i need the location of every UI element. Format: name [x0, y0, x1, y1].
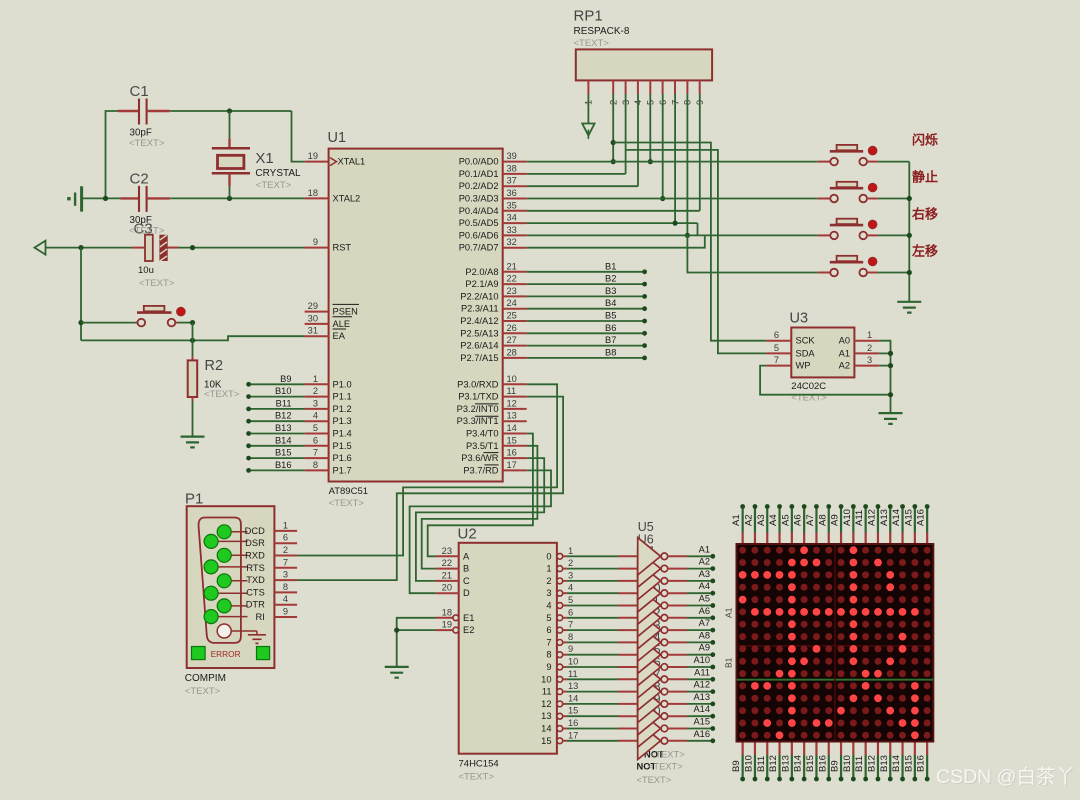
COMPIM DB9 pin circles [224, 531, 247, 533]
push button 静止 [818, 198, 831, 200]
capacitor C2 [121, 197, 140, 199]
svg-text:9: 9 [313, 237, 318, 247]
svg-text:13: 13 [541, 711, 551, 721]
push button 闪烁 [818, 161, 831, 163]
svg-text:P1.1: P1.1 [333, 392, 352, 402]
svg-text:2: 2 [546, 576, 551, 586]
wire left vertical C1 to XTAL2 row [106, 111, 120, 198]
svg-text:RESPACK-8: RESPACK-8 [574, 26, 630, 37]
ground below U3 [879, 413, 903, 424]
wire U2 output 6 to NOT gate [567, 629, 618, 631]
svg-text:A: A [463, 551, 470, 561]
svg-text:1: 1 [546, 564, 551, 574]
COMPIM pin stubs and names [274, 530, 297, 532]
svg-text:16: 16 [507, 448, 517, 458]
svg-text:37: 37 [507, 176, 517, 186]
svg-text:7: 7 [568, 620, 573, 630]
svg-text:P0.6/AD6: P0.6/AD6 [459, 230, 499, 240]
svg-text:A8: A8 [817, 514, 828, 526]
svg-text:<TEXT>: <TEXT> [637, 775, 672, 785]
wires B1-B8 from P2.0-P2.7 [527, 271, 645, 273]
svg-text:B10: B10 [842, 755, 853, 772]
ground below buttons [897, 302, 921, 313]
svg-text:8: 8 [568, 632, 573, 642]
svg-text:2: 2 [867, 343, 872, 353]
wire P0.2 row [527, 185, 638, 187]
svg-text:B13: B13 [780, 755, 791, 772]
svg-text:3: 3 [546, 588, 551, 598]
svg-text:20: 20 [442, 583, 452, 593]
wire U2 output 4 to NOT gate [567, 605, 618, 607]
wire green row line behind matrix [737, 679, 934, 681]
svg-text:A5: A5 [699, 594, 710, 604]
svg-text:B16: B16 [916, 755, 927, 772]
svg-text:B6: B6 [605, 323, 616, 333]
microcontroller U1 AT89C51 body [329, 149, 503, 482]
svg-text:P2.7/A15: P2.7/A15 [460, 353, 498, 363]
wire net A8 [687, 641, 713, 643]
svg-text:7: 7 [774, 355, 779, 365]
svg-text:B13: B13 [879, 755, 890, 772]
svg-text:18: 18 [442, 607, 452, 617]
svg-text:34: 34 [507, 213, 517, 223]
svg-text:17: 17 [568, 730, 578, 740]
wire net A2 [687, 568, 713, 570]
svg-text:17: 17 [507, 460, 517, 470]
wire WP to ground loop [760, 366, 890, 395]
svg-text:RST: RST [333, 243, 352, 253]
wire reset button branch [80, 248, 82, 341]
svg-text:P2.1/A9: P2.1/A9 [465, 279, 498, 289]
svg-text:23: 23 [442, 546, 452, 556]
svg-text:CTS: CTS [246, 587, 265, 597]
svg-text:B9: B9 [731, 760, 742, 772]
wire E1 E2 to ground [397, 618, 436, 667]
svg-text:B8: B8 [605, 347, 616, 357]
svg-text:1: 1 [568, 546, 573, 556]
svg-text:A8: A8 [699, 630, 710, 640]
wire net A6 [687, 617, 713, 619]
svg-text:19: 19 [308, 151, 318, 161]
svg-text:B2: B2 [605, 274, 616, 284]
svg-text:A6: A6 [793, 514, 804, 526]
svg-text:B14: B14 [891, 755, 902, 772]
svg-text:10u: 10u [138, 265, 154, 276]
svg-text:A1: A1 [731, 514, 742, 526]
svg-text:P1.5: P1.5 [333, 441, 352, 451]
wire EA net [81, 336, 305, 340]
svg-text:RI: RI [255, 612, 264, 622]
svg-text:9: 9 [283, 607, 288, 617]
svg-text:R2: R2 [205, 358, 224, 374]
svg-text:27: 27 [507, 335, 517, 345]
svg-text:RXD: RXD [245, 551, 265, 561]
capacitor C1 [118, 110, 139, 112]
wire U2 output 13 to NOT gate [567, 715, 618, 717]
svg-text:XTAL2: XTAL2 [333, 193, 361, 203]
svg-text:A3: A3 [756, 514, 767, 526]
wire P3.6 to U2 C [416, 458, 544, 581]
svg-text:A7: A7 [699, 618, 710, 628]
svg-text:U2: U2 [458, 526, 477, 543]
svg-text:RTS: RTS [246, 563, 264, 573]
svg-text:A14: A14 [891, 509, 902, 526]
svg-text:10: 10 [507, 374, 517, 384]
wire P0.0 row to button 1 [527, 161, 818, 163]
U2 output pins 0-15 [557, 553, 563, 559]
wire U2 output 12 to NOT gate [567, 703, 618, 705]
svg-text:A10: A10 [842, 509, 853, 526]
U2 enable pins E1 E2 with bubbles [436, 617, 453, 619]
svg-text:右移: 右移 [911, 206, 938, 221]
svg-text:2: 2 [568, 558, 573, 568]
svg-text:A3: A3 [699, 569, 710, 579]
svg-text:B10: B10 [275, 386, 292, 396]
svg-text:A1: A1 [699, 544, 710, 554]
svg-text:11: 11 [507, 386, 517, 396]
svg-text:<TEXT>: <TEXT> [139, 278, 175, 289]
svg-text:6: 6 [546, 625, 551, 635]
svg-text:22: 22 [507, 274, 517, 284]
svg-text:9: 9 [568, 644, 573, 654]
RP1 pull-up verticals to P0 rows [612, 94, 614, 162]
capacitor C3 electrolytic 10u [132, 247, 145, 249]
svg-text:A13: A13 [693, 692, 710, 702]
serial port P1 COMPIM body [187, 506, 275, 668]
svg-text:B15: B15 [275, 448, 292, 458]
svg-text:5: 5 [546, 613, 551, 623]
svg-text:CSDN @白茶丫: CSDN @白茶丫 [936, 766, 1075, 788]
COMPIM DB9 connector outline [199, 518, 241, 643]
svg-text:C2: C2 [130, 171, 149, 188]
svg-text:22: 22 [442, 558, 452, 568]
wire P0.5 step down [697, 223, 699, 235]
svg-text:A9: A9 [699, 643, 710, 653]
svg-text:B5: B5 [605, 311, 616, 321]
resistor pack RP1 RESPACK-8 [576, 49, 712, 80]
wire net A9 [687, 654, 713, 656]
svg-text:13: 13 [507, 411, 517, 421]
svg-text:B15: B15 [903, 755, 914, 772]
wire U2 output 14 to NOT gate [567, 728, 618, 730]
svg-text:P3.6/WR: P3.6/WR [461, 453, 498, 463]
svg-text:P0.5/AD5: P0.5/AD5 [459, 218, 499, 228]
wire P0.3 row to button 2 [527, 198, 818, 200]
svg-text:15: 15 [507, 435, 517, 445]
svg-text:A10: A10 [693, 655, 710, 665]
led matrix dots [739, 547, 746, 554]
svg-text:A4: A4 [699, 581, 710, 591]
wires B9-B16 to P1.0-P1.7 [249, 383, 305, 385]
svg-text:TXD: TXD [246, 575, 265, 585]
svg-text:P1.0: P1.0 [333, 379, 352, 389]
svg-text:B9: B9 [830, 760, 841, 772]
svg-text:3: 3 [867, 355, 872, 365]
wire net A14 [687, 715, 713, 717]
svg-text:14: 14 [507, 423, 517, 433]
svg-text:P0.7/AD7: P0.7/AD7 [459, 243, 499, 253]
led matrix quadrant divider lines [737, 544, 934, 742]
svg-text:8: 8 [313, 460, 318, 470]
svg-text:E1: E1 [463, 613, 474, 623]
svg-text:B11: B11 [854, 756, 865, 772]
wire P3.5 to U2 B [422, 446, 538, 569]
svg-text:7: 7 [546, 637, 551, 647]
svg-text:<TEXT>: <TEXT> [574, 38, 610, 49]
resistor R2 10K [192, 323, 194, 357]
svg-text:8: 8 [283, 582, 288, 592]
wire U2 output 7 to NOT gate [567, 641, 618, 643]
svg-text:A7: A7 [805, 514, 816, 526]
svg-text:XTAL1: XTAL1 [338, 157, 366, 167]
svg-text:11: 11 [542, 687, 552, 697]
svg-text:P3.2/INT0: P3.2/INT0 [457, 404, 499, 414]
wire net A12 [687, 691, 713, 693]
svg-text:A2: A2 [699, 557, 710, 567]
svg-text:P2.3/A11: P2.3/A11 [461, 304, 499, 314]
wire P0.7 row with step up [527, 235, 705, 247]
svg-text:A15: A15 [903, 509, 914, 526]
wire U2 output 10 to NOT gate [567, 678, 618, 680]
svg-text:4: 4 [313, 411, 318, 421]
svg-text:ERROR: ERROR [211, 649, 241, 659]
svg-text:ALE: ALE [333, 319, 351, 329]
svg-text:7: 7 [313, 448, 318, 458]
svg-text:P3.0/RXD: P3.0/RXD [457, 379, 499, 389]
svg-text:13: 13 [568, 681, 578, 691]
svg-text:PSEN: PSEN [333, 307, 358, 317]
svg-text:1: 1 [283, 520, 288, 530]
svg-text:14: 14 [568, 693, 578, 703]
svg-text:A2: A2 [743, 514, 754, 526]
svg-text:B16: B16 [275, 460, 292, 470]
svg-text:B12: B12 [275, 411, 292, 421]
svg-text:25: 25 [507, 311, 517, 321]
svg-text:A16: A16 [693, 729, 710, 739]
svg-text:<TEXT>: <TEXT> [256, 180, 292, 191]
svg-text:P3.3/INT1: P3.3/INT1 [457, 416, 499, 426]
svg-text:左移: 左移 [912, 244, 938, 259]
svg-text:P0.1/AD1: P0.1/AD1 [459, 169, 499, 179]
wire U2 output 5 to NOT gate [567, 617, 618, 619]
svg-text:39: 39 [507, 151, 517, 161]
svg-text:A1: A1 [839, 348, 850, 358]
ground below E1 E2 [385, 667, 409, 678]
svg-text:X1: X1 [255, 150, 273, 167]
wire P0.6 row to button 3 [527, 234, 818, 236]
svg-text:38: 38 [507, 163, 517, 173]
svg-text:30: 30 [308, 313, 318, 323]
svg-text:DTR: DTR [246, 600, 265, 610]
ground below R2 [181, 437, 205, 448]
wire A0 A1 A2 to ground [879, 341, 890, 413]
wire net A7 [687, 629, 713, 631]
svg-text:A11: A11 [854, 510, 865, 526]
svg-text:5: 5 [774, 343, 779, 353]
svg-text:10: 10 [568, 657, 578, 667]
wire U2 output 15 to NOT gate [567, 740, 618, 742]
svg-text:P3.4/T0: P3.4/T0 [466, 429, 499, 439]
svg-text:P1.4: P1.4 [333, 429, 352, 439]
svg-text:A1: A1 [724, 607, 734, 618]
svg-text:12: 12 [541, 699, 551, 709]
svg-text:4: 4 [546, 601, 551, 611]
svg-text:33: 33 [507, 225, 517, 235]
svg-text:A16: A16 [916, 509, 927, 526]
svg-text:E2: E2 [463, 625, 474, 635]
svg-text:A4: A4 [768, 514, 779, 526]
svg-text:WP: WP [796, 361, 811, 371]
svg-text:A5: A5 [780, 514, 791, 526]
svg-text:P1: P1 [185, 491, 203, 508]
svg-text:B16: B16 [817, 755, 828, 772]
wire net A16 [687, 740, 713, 742]
svg-text:D: D [463, 588, 470, 598]
push button 右移 [818, 234, 831, 236]
svg-text:闪烁: 闪烁 [912, 133, 938, 148]
svg-text:12: 12 [507, 398, 517, 408]
svg-text:4: 4 [568, 583, 573, 593]
svg-text:35: 35 [507, 200, 517, 210]
svg-text:EA: EA [333, 331, 346, 341]
push button 左移 [818, 272, 831, 274]
decoder U2 74HC154 body [459, 543, 557, 754]
svg-text:B14: B14 [275, 435, 292, 445]
svg-text:静止: 静止 [912, 170, 938, 185]
svg-text:24: 24 [507, 298, 517, 308]
svg-text:A2: A2 [839, 361, 850, 371]
svg-text:A13: A13 [879, 509, 890, 526]
svg-text:3: 3 [568, 570, 573, 580]
svg-text:<TEXT>: <TEXT> [204, 389, 240, 400]
svg-text:SCK: SCK [796, 336, 816, 346]
wire net A4 [687, 592, 713, 594]
svg-text:<TEXT>: <TEXT> [329, 498, 365, 509]
svg-text:B11: B11 [276, 398, 292, 408]
svg-text:DSR: DSR [245, 538, 265, 548]
svg-text:<TEXT>: <TEXT> [185, 686, 221, 697]
wire U2 output 0 to NOT gate [567, 555, 618, 557]
wire U2 output 3 to NOT gate [567, 592, 618, 594]
svg-text:14: 14 [541, 724, 551, 734]
svg-text:RP1: RP1 [574, 8, 603, 25]
svg-text:P0.3/AD3: P0.3/AD3 [459, 194, 499, 204]
svg-text:P1.3: P1.3 [333, 416, 352, 426]
wire branch down to button 4 [687, 235, 817, 272]
svg-text:32: 32 [507, 237, 517, 247]
svg-text:A12: A12 [866, 509, 877, 526]
svg-text:0: 0 [546, 551, 551, 561]
svg-text:5: 5 [568, 595, 573, 605]
eeprom U3 24C02C body [791, 328, 854, 378]
svg-text:5: 5 [313, 423, 318, 433]
svg-text:P2.2/A10: P2.2/A10 [460, 291, 498, 301]
svg-text:SDA: SDA [796, 348, 816, 358]
node junction dots XTAL rows [103, 196, 108, 201]
wire XTAL2 net [82, 197, 121, 199]
wire P0.1 row [527, 173, 626, 175]
svg-text:AT89C51: AT89C51 [329, 486, 368, 497]
svg-text:A6: A6 [699, 606, 710, 616]
svg-text:23: 23 [507, 286, 517, 296]
led matrix top pins A1-A16 [742, 533, 744, 545]
svg-text:U1: U1 [328, 130, 347, 146]
svg-text:<TEXT>: <TEXT> [650, 750, 685, 760]
svg-text:24C02C: 24C02C [791, 381, 826, 392]
svg-text:18: 18 [308, 188, 318, 198]
svg-text:6: 6 [313, 435, 318, 445]
svg-text:<TEXT>: <TEXT> [648, 762, 683, 772]
svg-text:CRYSTAL: CRYSTAL [255, 168, 301, 179]
wire button common vertical to ground [908, 162, 910, 302]
svg-text:26: 26 [507, 323, 517, 333]
svg-text:B1: B1 [605, 261, 616, 271]
svg-text:1: 1 [313, 374, 318, 384]
U1 left pin stubs and names [305, 161, 329, 163]
wire U2 output 11 to NOT gate [567, 691, 618, 693]
svg-text:B11: B11 [756, 756, 767, 772]
wire P0.4 row [527, 210, 700, 212]
wire P0.5 row [527, 222, 698, 224]
svg-text:36: 36 [507, 188, 517, 198]
svg-text:2: 2 [313, 386, 318, 396]
svg-text:P1.6: P1.6 [333, 453, 352, 463]
svg-text:29: 29 [308, 301, 318, 311]
led matrix body [737, 544, 934, 742]
svg-text:19: 19 [442, 620, 452, 630]
wire net A10 [687, 666, 713, 668]
svg-text:74HC154: 74HC154 [459, 759, 499, 770]
svg-text:A11: A11 [694, 667, 710, 677]
svg-text:B1: B1 [724, 657, 734, 668]
svg-text:P3.7/RD: P3.7/RD [463, 465, 498, 475]
wire U2 output 2 to NOT gate [567, 580, 618, 582]
U1 pin name overlines INT0 INT1 WR RD [475, 403, 499, 405]
wire P3.7 to U2 D [410, 470, 551, 593]
wire P3.1 to COMPIM TXD [297, 397, 563, 580]
svg-text:C1: C1 [130, 83, 149, 100]
svg-text:U3: U3 [790, 311, 809, 327]
svg-text:B12: B12 [768, 755, 779, 772]
wire net A11 [687, 678, 713, 680]
RP1 pin1 ground arrow [587, 94, 589, 124]
wire SCK net from P0.0 [613, 143, 766, 341]
svg-text:A15: A15 [693, 717, 710, 727]
svg-text:6: 6 [774, 330, 779, 340]
svg-text:15: 15 [541, 736, 551, 746]
svg-text:B15: B15 [805, 755, 816, 772]
wire net A5 [687, 605, 713, 607]
COMPIM error indicator squares [192, 647, 206, 660]
wire RST net with left arrow [35, 241, 46, 255]
svg-text:A9: A9 [830, 514, 841, 526]
svg-text:P2.4/A12: P2.4/A12 [460, 316, 498, 326]
svg-text:10: 10 [541, 674, 551, 684]
svg-text:C: C [463, 576, 470, 586]
svg-text:11: 11 [568, 669, 578, 679]
svg-text:16: 16 [568, 718, 578, 728]
COMPIM DB9 pin 5 white circle with ground [224, 631, 257, 635]
wire net A15 [687, 728, 713, 730]
svg-text:2: 2 [283, 545, 288, 555]
svg-text:21: 21 [442, 570, 452, 580]
svg-text:P0.2/AD2: P0.2/AD2 [459, 181, 499, 191]
svg-text:<TEXT>: <TEXT> [459, 772, 495, 783]
wire P3.0 to COMPIM RXD [297, 384, 557, 555]
power rail symbol left [67, 197, 70, 200]
wire U2 output 9 to NOT gate [567, 666, 618, 668]
svg-text:31: 31 [308, 326, 318, 336]
